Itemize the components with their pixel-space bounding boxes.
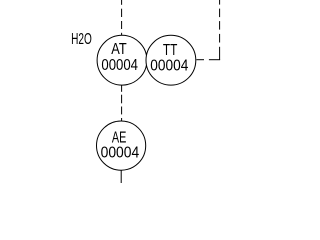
wire: dashed signal line, horizontal from TT to corner: [196, 59, 220, 61]
svg-text:00004: 00004: [101, 57, 138, 74]
wire: dashed signal line between AT and AE: [121, 85, 123, 121]
instrument balloon AT 00004: [97, 35, 147, 85]
svg-text:AT: AT: [111, 41, 127, 58]
svg-text:TT: TT: [163, 42, 178, 59]
svg-text:00004: 00004: [101, 144, 140, 161]
wire: solid line below AE to bottom edge: [120, 170, 122, 183]
instrument balloon AE 00004: [97, 121, 146, 170]
instrument balloon TT 00004: [146, 35, 196, 85]
wire: dashed instrument signal line, top vertical into AT: [121, 0, 123, 35]
svg-text:H2O: H2O: [71, 31, 92, 48]
wire: dashed signal line, right vertical from top edge down to corner: [219, 0, 221, 60]
svg-text:00004: 00004: [150, 57, 188, 74]
